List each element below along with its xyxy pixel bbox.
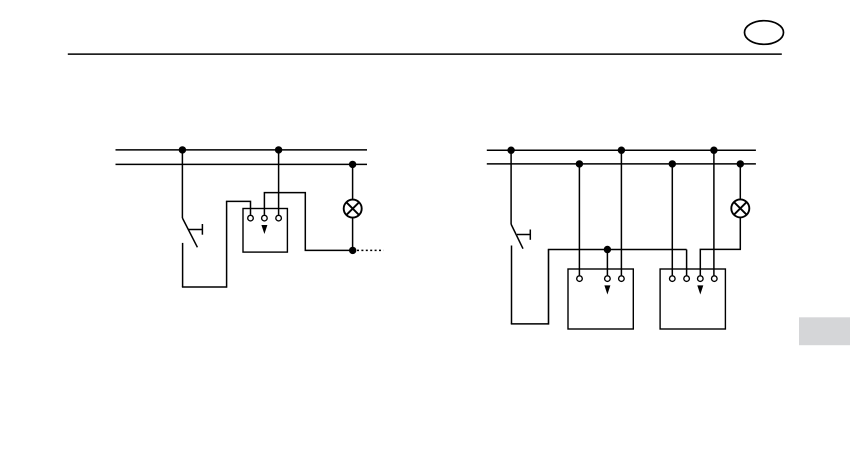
node junction dot lamp return xyxy=(349,247,356,254)
dimmer U1 pin 1 xyxy=(248,215,254,221)
dimmer U1 body xyxy=(243,209,287,253)
dimmer U3 arrow mark xyxy=(697,285,703,294)
wire to dimmer pin 1 xyxy=(226,201,251,215)
node junction dot L rail / dimmer pin 3 feed xyxy=(275,146,282,153)
dimmer U2 arrow mark xyxy=(604,285,610,294)
dimmer U1 pin 3 xyxy=(276,215,282,221)
page edge tab xyxy=(799,317,850,345)
wire lamp drop from N rail xyxy=(352,164,354,199)
node junction dot L rail / switch feed xyxy=(507,147,514,154)
wire switch drop from L rail xyxy=(181,150,183,218)
wire L rail to dimmer B pin 4 xyxy=(713,150,715,275)
wire lamp bottom xyxy=(739,217,741,249)
wire N rail (left diagram) xyxy=(116,163,368,165)
dimmer U3 pin 1 xyxy=(670,276,676,282)
wire drop to dimmer A pin 2 xyxy=(606,250,608,276)
node junction dot N rail / lamp feed xyxy=(349,161,356,168)
wire switch loop riser xyxy=(548,250,550,325)
dimmer U3 pin 3 xyxy=(698,276,704,282)
dimmer U1 pin 2 xyxy=(262,215,268,221)
switch S2 blade xyxy=(511,224,523,249)
header rule xyxy=(68,53,782,55)
wire L rail (right diagram) xyxy=(487,149,756,151)
dimmer U3 pin 4 xyxy=(712,276,718,282)
switch S1 actuator xyxy=(189,224,203,235)
wire switched-line bus xyxy=(548,249,687,251)
node junction dot N rail / dimmer A pin 1 feed xyxy=(576,160,583,167)
switch S1 blade xyxy=(182,218,197,247)
dimmer U1 arrow mark xyxy=(261,225,267,234)
node junction dot L rail / dimmer A pin 3 feed xyxy=(618,147,625,154)
node junction dot N rail / lamp feed xyxy=(737,160,744,167)
wire N rail to dimmer A pin 1 xyxy=(578,164,580,276)
dimmer U2 pin 3 xyxy=(619,276,625,282)
wire lamp drop from N rail xyxy=(739,164,741,200)
wire switch loop bottom xyxy=(182,286,227,288)
wire switch loop bottom xyxy=(511,323,549,325)
wire switch drop from L rail xyxy=(510,150,512,224)
switch S2 actuator xyxy=(517,230,530,240)
node junction dot L rail / switch feed xyxy=(179,146,186,153)
wire N rail (right diagram) xyxy=(487,163,756,165)
dimmer U2 body xyxy=(568,269,633,329)
dimmer U3 body xyxy=(660,269,725,329)
dimmer U2 pin 2 xyxy=(605,276,611,282)
wire lamp bottom xyxy=(352,218,354,251)
dimmer U2 pin 1 xyxy=(577,276,583,282)
logo ellipse xyxy=(745,21,784,45)
wire switch loop riser xyxy=(226,201,228,287)
node junction dot switched bus / dimmer A pin 2 xyxy=(604,246,611,253)
wire N rail to dimmer B pin 1 xyxy=(671,164,673,276)
lamp E2 xyxy=(731,199,749,217)
wire dimmer pin 3 to L rail xyxy=(278,150,280,215)
node junction dot L rail / dimmer B pin 4 feed xyxy=(710,147,717,154)
wire switch lower contact xyxy=(182,243,184,287)
wire lamp return to dimmer B pin 3 xyxy=(700,249,741,275)
wire dimmer pin 2 to lamp node xyxy=(264,193,352,251)
wire dotted continuation xyxy=(357,249,384,251)
wire L rail (left diagram) xyxy=(116,149,368,151)
node junction dot N rail / dimmer B pin 1 feed xyxy=(669,160,676,167)
dimmer U3 pin 2 xyxy=(684,276,690,282)
wire drop to dimmer B pin 2 xyxy=(686,250,688,276)
wire L rail to dimmer A pin 3 xyxy=(620,150,622,275)
wire switch lower contact xyxy=(511,246,513,324)
lamp E1 xyxy=(344,200,362,218)
